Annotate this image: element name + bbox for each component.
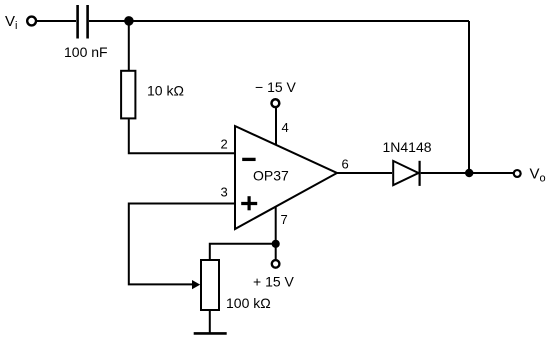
svg-text:1N4148: 1N4148	[383, 139, 432, 155]
node junction dot pin7 / pot top	[272, 240, 280, 248]
op-amp inverting input minus sign	[242, 158, 255, 161]
wire pot top to pin7 junction	[210, 244, 276, 260]
resistor R1 10 kOhm	[121, 71, 135, 119]
capacitor C1 plates	[78, 5, 88, 39]
svg-text:− 15 V: − 15 V	[255, 79, 297, 95]
potentiometer R2 100 kOhm body	[201, 260, 219, 310]
wire resistor to op-amp pin 2	[129, 119, 234, 153]
wire pot bottom to ground	[209, 311, 211, 334]
wire feedback right vertical	[468, 21, 470, 173]
node junction dot at capacitor/resistor	[124, 16, 134, 26]
wire junction down to resistor R1	[128, 21, 130, 70]
wire op-amp pin 7 down to +15V node	[275, 207, 277, 259]
wire -15V terminal to op-amp pin 4	[275, 108, 277, 146]
diode D1 1N4148	[393, 161, 419, 186]
svg-text:OP37: OP37	[253, 168, 289, 184]
wire Vi to capacitor	[37, 20, 76, 22]
svg-text:6: 6	[342, 157, 349, 172]
node junction dot output	[465, 169, 473, 177]
svg-text:7: 7	[281, 212, 288, 227]
ground	[194, 332, 227, 335]
negative supply terminal -15 V	[272, 99, 280, 107]
potentiometer wiper arrowhead	[192, 280, 200, 289]
op-amp non-inverting input plus sign	[241, 196, 257, 210]
wire op-amp output pin 6 to diode	[337, 172, 392, 174]
svg-text:2: 2	[221, 137, 228, 152]
wire capacitor to top-right corner (feedback top)	[89, 20, 469, 22]
svg-text:100 kΩ: 100 kΩ	[226, 295, 271, 311]
output terminal Vo	[514, 170, 521, 177]
input terminal Vi	[27, 17, 36, 26]
svg-text:10 kΩ: 10 kΩ	[147, 83, 184, 99]
svg-text:3: 3	[221, 185, 228, 200]
positive supply terminal +15 V	[272, 260, 280, 268]
op-amp U1 OP37 triangle	[235, 126, 337, 229]
svg-text:100 nF: 100 nF	[64, 44, 108, 60]
svg-text:+ 15 V: + 15 V	[253, 274, 295, 290]
svg-text:4: 4	[282, 120, 289, 135]
wire diode to output terminal	[421, 172, 513, 174]
wire op-amp pin 3 to potentiometer wiper	[129, 204, 234, 285]
